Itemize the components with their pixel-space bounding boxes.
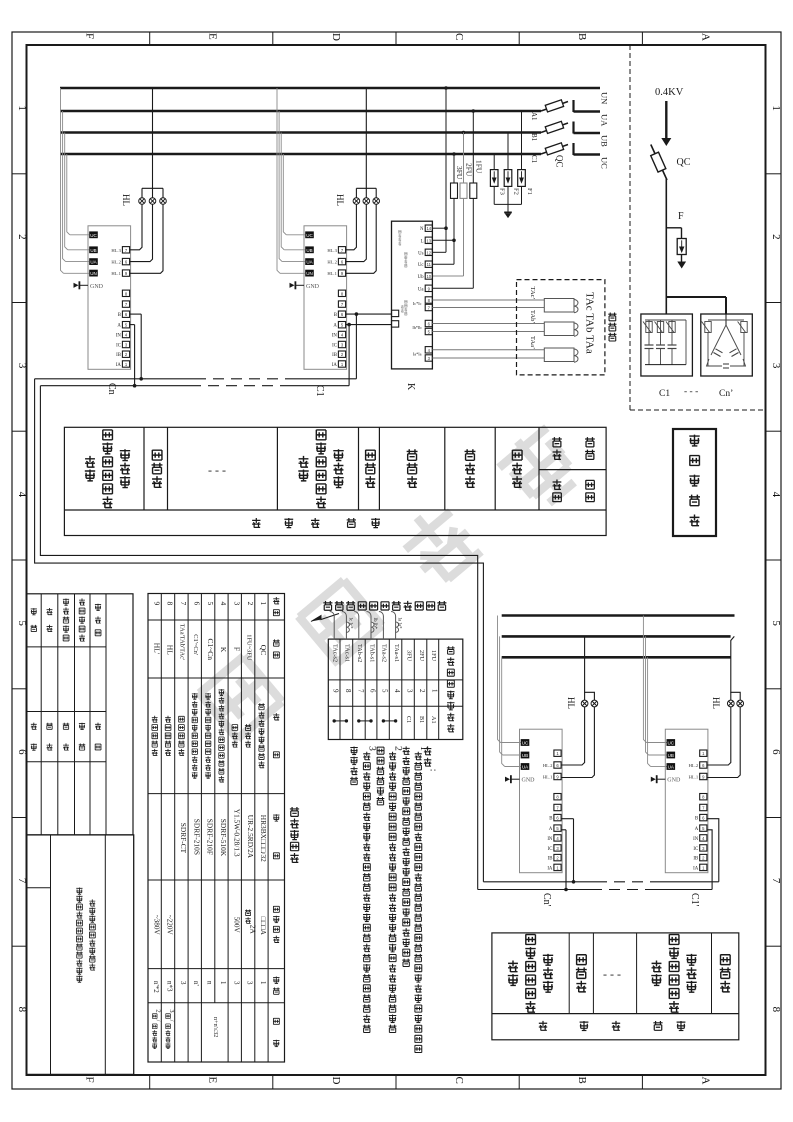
CT coil stubs above terminals	[330, 612, 402, 640]
svg-text:8: 8	[770, 1007, 782, 1013]
svg-text:K: K	[219, 647, 228, 653]
svg-text:N: N	[420, 227, 424, 232]
fuse 2FU	[432, 131, 473, 276]
svg-text:0.4KV: 0.4KV	[655, 87, 684, 98]
module C1&apos; bus taps	[643, 616, 666, 767]
svg-text:UN: UN	[600, 92, 610, 104]
svg-text:Cn: Cn	[106, 383, 117, 395]
title block	[27, 835, 134, 1075]
svg-text:HL.1: HL.1	[689, 775, 699, 780]
svg-text:9: 9	[152, 602, 161, 606]
svg-text:IB: IB	[116, 353, 121, 358]
svg-text:4: 4	[770, 492, 782, 498]
label C1	[314, 385, 325, 397]
svg-text:GND: GND	[90, 284, 104, 290]
svg-text:UB: UB	[306, 248, 312, 253]
comm wire B (RS485)	[35, 312, 484, 882]
svg-text:UC: UC	[522, 741, 529, 746]
CT secondary wires	[432, 300, 544, 358]
svg-text:- - -: - - -	[684, 387, 698, 397]
svg-text:n*3: n*3	[166, 981, 174, 992]
svg-text:L: L	[421, 239, 424, 244]
svg-text:HL.1: HL.1	[327, 271, 337, 276]
comm wire B (lower)	[483, 819, 718, 884]
module C1&apos;	[651, 729, 708, 873]
svg-text:HL: HL	[335, 194, 345, 206]
svg-text:Ub: Ub	[418, 275, 424, 280]
svg-text:C1: C1	[314, 385, 325, 397]
knife switch QC (incoming, 3 poles)	[530, 100, 600, 168]
svg-text:3: 3	[406, 689, 414, 693]
labels UN UA UB UC	[600, 92, 610, 169]
svg-text:B1: B1	[418, 716, 425, 723]
bus B (lower diagram)	[502, 635, 731, 638]
svg-text:TAc-s2: TAc-s2	[331, 644, 338, 662]
svg-text:1FU: 1FU	[430, 650, 437, 662]
svg-text:SDRF-210S: SDRF-210S	[192, 819, 201, 855]
watermark	[198, 421, 585, 740]
svg-text:4: 4	[393, 689, 401, 693]
module C1	[290, 226, 347, 369]
svg-text:1: 1	[430, 689, 438, 693]
svg-text:C1'~Cn': C1'~Cn'	[192, 634, 199, 655]
svg-text:IC: IC	[693, 847, 698, 852]
svg-text:UC: UC	[668, 741, 675, 746]
svg-text:HL: HL	[711, 697, 721, 709]
svg-text:A: A	[333, 324, 337, 329]
svg-text:UB: UB	[600, 135, 610, 147]
label Cn&apos;	[541, 893, 552, 907]
svg-text:5: 5	[770, 620, 782, 626]
legend table (top diagram)	[64, 427, 606, 535]
svg-text:1FU~3FU: 1FU~3FU	[245, 634, 252, 661]
svg-text:TAb’: TAb’	[529, 310, 536, 324]
svg-text:A: A	[699, 1077, 711, 1085]
bus N	[60, 87, 600, 90]
svg-text:B: B	[695, 817, 698, 822]
svg-text:10: 10	[426, 274, 431, 279]
module Cn bus taps	[61, 88, 90, 273]
svg-text:2: 2	[393, 746, 404, 751]
svg-text:IB: IB	[332, 353, 337, 358]
svg-text:Ic*Ic: Ic*Ic	[413, 301, 422, 306]
svg-text:11: 11	[427, 262, 432, 267]
svg-text:3: 3	[168, 1009, 175, 1012]
svg-text:3: 3	[179, 981, 187, 985]
module C1 bus taps	[277, 88, 305, 273]
bus C	[60, 153, 541, 156]
surge arrester F (primary)	[666, 211, 686, 269]
svg-text:HR3BX□□□/32: HR3BX□□□/32	[259, 815, 268, 862]
svg-text:A: A	[549, 827, 553, 832]
svg-text:F: F	[84, 1077, 96, 1083]
svg-text:2: 2	[155, 1009, 162, 1012]
svg-text:UC: UC	[306, 233, 313, 238]
main vertical wire	[665, 179, 667, 314]
svg-text:HL.1: HL.1	[543, 775, 553, 780]
fuse 1FU	[432, 109, 483, 288]
svg-text:2: 2	[770, 234, 782, 240]
svg-text:n+n'≤32: n+n'≤32	[212, 1017, 219, 1037]
svg-text:HL: HL	[166, 645, 175, 655]
svg-text:TAa’: TAa’	[529, 336, 536, 349]
capacitor box C1 (star)	[641, 314, 693, 376]
signature table	[27, 594, 134, 835]
svg-text:SDRF-510K: SDRF-510K	[219, 819, 228, 857]
svg-text:HL.1: HL.1	[111, 271, 121, 276]
svg-text:TAc-s1: TAc-s1	[344, 644, 351, 662]
svg-text:1: 1	[259, 981, 267, 985]
svg-text:C: C	[453, 1077, 465, 1084]
svg-text:UA: UA	[522, 765, 528, 770]
svg-text:IA: IA	[116, 363, 122, 368]
svg-text:Ib Ib*: Ib Ib*	[372, 618, 377, 630]
svg-text:HL.3: HL.3	[327, 248, 337, 253]
incoming feeder wire	[661, 101, 671, 146]
svg-text:UN: UN	[306, 271, 313, 276]
svg-text:GND: GND	[522, 778, 536, 784]
svg-text:HL: HL	[566, 697, 576, 709]
svg-text:HL.2: HL.2	[689, 763, 699, 768]
svg-text:1: 1	[16, 105, 28, 111]
svg-text:GND: GND	[306, 284, 320, 290]
svg-text:9: 9	[332, 689, 340, 693]
svg-text:7: 7	[179, 602, 188, 606]
svg-text:Ua: Ua	[418, 287, 424, 292]
svg-text:HL: HL	[121, 194, 131, 206]
svg-text:UA: UA	[600, 114, 610, 127]
lamps HL (module C1&apos;)	[707, 636, 743, 777]
dashed box incoming cabinet	[517, 280, 605, 375]
svg-text:HL': HL'	[152, 643, 161, 655]
svg-text:3: 3	[233, 602, 242, 606]
label C1&apos;	[689, 893, 700, 907]
svg-text:8: 8	[344, 689, 352, 693]
bus B	[60, 131, 541, 134]
svg-text:IC: IC	[332, 344, 337, 349]
comm wire A (RS485)	[40, 323, 477, 890]
svg-text:HL.2: HL.2	[327, 260, 337, 265]
svg-text:6: 6	[770, 749, 782, 755]
svg-text:B: B	[576, 1077, 588, 1084]
svg-text:C1: C1	[659, 389, 670, 399]
svg-text:7: 7	[770, 878, 782, 884]
bus A	[60, 110, 541, 113]
CT TAc TAb TAa coils	[529, 287, 578, 363]
svg-text:C1~Cn: C1~Cn	[206, 639, 215, 661]
svg-text:IN: IN	[693, 837, 699, 842]
capacitor bank branch wires	[666, 297, 726, 314]
svg-text:IA: IA	[332, 363, 338, 368]
svg-text:IC: IC	[548, 847, 553, 852]
svg-text:B: B	[334, 313, 337, 318]
svg-text:n'*2: n'*2	[152, 981, 160, 993]
svg-text:Y1.5W-0.28/1.3: Y1.5W-0.28/1.3	[232, 809, 241, 857]
svg-text:Ib*Ib: Ib*Ib	[412, 325, 421, 330]
svg-text:3FU: 3FU	[455, 166, 464, 180]
svg-text:TAc TAb TAa: TAc TAb TAa	[584, 292, 596, 354]
svg-text:TAb-s2: TAb-s2	[356, 644, 363, 662]
svg-text:IB: IB	[548, 857, 553, 862]
surge arresters F1 F2 F3	[490, 111, 532, 218]
svg-text:6: 6	[369, 689, 377, 693]
label incoming CT secondary	[311, 601, 446, 622]
svg-text:3: 3	[16, 363, 28, 369]
svg-text:2FU: 2FU	[418, 650, 425, 662]
fuse 3FU	[432, 152, 464, 264]
svg-text:HL.2: HL.2	[111, 260, 121, 265]
svg-text:Cn’: Cn’	[719, 389, 733, 399]
svg-text:n': n'	[192, 981, 200, 986]
knife switch QC (primary)	[651, 145, 691, 181]
svg-text:C1: C1	[405, 716, 412, 723]
svg-text:Ia*Ia: Ia*Ia	[413, 352, 422, 357]
svg-text:8: 8	[166, 602, 175, 606]
svg-text:UA: UA	[306, 260, 312, 265]
svg-text:UB: UB	[90, 248, 96, 253]
svg-text:B: B	[549, 817, 552, 822]
svg-text:~380V: ~380V	[152, 915, 160, 936]
svg-text:F2: F2	[512, 188, 519, 195]
svg-text:QC: QC	[677, 157, 691, 168]
svg-text:Us: Us	[418, 251, 423, 256]
svg-text:3: 3	[246, 981, 254, 985]
lamps HL (module C1)	[335, 88, 379, 273]
label 进线柜	[608, 312, 616, 341]
svg-text:- - -: - - -	[208, 463, 226, 477]
svg-text:- - -: - - -	[603, 967, 621, 981]
svg-text:TAb-s1: TAb-s1	[368, 644, 375, 662]
svg-text:6: 6	[192, 602, 201, 606]
wire N to controller	[432, 86, 447, 252]
svg-text:A: A	[695, 827, 699, 832]
svg-text:□□□A: □□□A	[259, 917, 267, 936]
svg-text:HL.2: HL.2	[543, 763, 553, 768]
svg-text:TAa-s1: TAa-s1	[393, 644, 400, 662]
comm wires C1 to K	[346, 314, 392, 325]
svg-text:A: A	[699, 33, 711, 41]
svg-text:C: C	[453, 33, 465, 40]
svg-text:TAc’: TAc’	[529, 287, 536, 300]
svg-text:IA: IA	[547, 866, 553, 871]
svg-text:F1: F1	[526, 188, 533, 195]
svg-text:2: 2	[16, 234, 28, 240]
svg-text:D: D	[330, 33, 342, 41]
svg-text:QC: QC	[259, 645, 268, 655]
svg-text:3: 3	[367, 746, 378, 751]
svg-text:IN: IN	[116, 334, 122, 339]
svg-text:B: B	[118, 313, 121, 318]
notes text	[350, 746, 439, 1053]
controller K	[392, 221, 433, 391]
svg-text:A1: A1	[430, 716, 437, 724]
svg-text:E: E	[207, 1077, 219, 1084]
svg-text:QC: QC	[555, 155, 565, 168]
svg-text:K: K	[405, 383, 416, 391]
svg-text:UR-2.5RD/2A: UR-2.5RD/2A	[246, 815, 255, 859]
svg-text:/: /	[155, 1020, 162, 1022]
svg-text:2A: 2A	[248, 925, 257, 935]
svg-text:B1: B1	[530, 133, 538, 142]
svg-text:1FU: 1FU	[475, 160, 484, 174]
svg-text:UB: UB	[522, 753, 528, 758]
svg-text:500V: 500V	[232, 917, 240, 934]
svg-text:1: 1	[418, 746, 429, 751]
svg-text:A: A	[117, 324, 121, 329]
terminal block table	[328, 639, 463, 739]
bus C (lower diagram)	[502, 656, 731, 659]
svg-text:12: 12	[426, 250, 431, 255]
svg-text:SDRF-210F: SDRF-210F	[206, 819, 215, 855]
svg-text:F: F	[84, 33, 96, 39]
svg-text:/: /	[168, 1020, 175, 1022]
svg-text:UB: UB	[668, 753, 674, 758]
svg-text:1: 1	[770, 105, 782, 111]
label 0.4KV	[655, 87, 684, 98]
lamps HL (module Cn)	[121, 88, 166, 273]
svg-text:7: 7	[357, 689, 365, 693]
svg-text:Ia Ia*: Ia Ia*	[397, 618, 402, 630]
svg-text:F3: F3	[499, 188, 506, 195]
svg-text:UA: UA	[90, 260, 96, 265]
svg-text:F: F	[233, 647, 242, 651]
svg-text:UA: UA	[668, 765, 674, 770]
svg-text:n: n	[206, 981, 214, 985]
svg-text::: :	[428, 769, 439, 772]
svg-text:2: 2	[418, 689, 426, 693]
svg-text:IN: IN	[547, 837, 553, 842]
capacitor box Cn (delta)	[701, 314, 753, 376]
svg-text:C1: C1	[530, 155, 538, 164]
svg-text:14: 14	[426, 226, 431, 231]
primary diagram separator dashed	[630, 45, 766, 410]
svg-text:E: E	[207, 33, 219, 40]
svg-text:~220V: ~220V	[166, 915, 174, 936]
comm wire A (lower)	[478, 830, 712, 892]
svg-text:F: F	[678, 211, 684, 222]
lamps HL (module Cn&apos;)	[562, 636, 598, 777]
svg-text:13: 13	[426, 238, 431, 243]
svg-text:4: 4	[219, 602, 228, 606]
labels C1 ... Cn	[659, 387, 733, 399]
svg-text:2FU: 2FU	[465, 163, 474, 177]
svg-text:IN: IN	[332, 334, 338, 339]
svg-text:A1: A1	[530, 112, 538, 121]
module Cn&apos; bus taps	[498, 616, 521, 767]
label Cn	[106, 383, 117, 395]
svg-text:B: B	[576, 33, 588, 40]
svg-text:3: 3	[770, 363, 782, 369]
svg-text:3: 3	[232, 981, 240, 985]
equipment table	[148, 594, 285, 1063]
svg-text:Cn': Cn'	[541, 893, 552, 907]
svg-text:UN: UN	[90, 271, 97, 276]
svg-text:IA: IA	[693, 866, 699, 871]
svg-text:Uc: Uc	[418, 263, 424, 268]
svg-text:UC: UC	[600, 157, 610, 169]
svg-text:C1': C1'	[689, 893, 700, 907]
title box 一次接线图	[673, 429, 716, 536]
label TAc TAb TAa	[584, 292, 596, 354]
svg-text:2: 2	[246, 602, 255, 606]
svg-text:TAa'TAb'TAc': TAa'TAb'TAc'	[179, 624, 186, 660]
svg-text:5: 5	[206, 602, 215, 606]
legend table (lower diagram)	[492, 933, 739, 1040]
svg-text:IC: IC	[116, 344, 121, 349]
svg-text:IB: IB	[693, 857, 698, 862]
svg-text:1: 1	[259, 602, 268, 606]
equipment table title	[290, 807, 299, 863]
module Cn	[74, 226, 131, 369]
svg-text:1: 1	[219, 981, 227, 985]
svg-text:4: 4	[16, 492, 28, 498]
module Cn&apos;	[505, 729, 562, 873]
svg-text:D: D	[330, 1077, 342, 1085]
svg-text:UC: UC	[90, 233, 97, 238]
bus A (lower diagram)	[502, 614, 735, 617]
svg-text:5: 5	[381, 689, 389, 693]
svg-text:3FU: 3FU	[405, 650, 412, 662]
svg-text:Ic Ic*: Ic Ic*	[348, 618, 353, 630]
svg-text:SDRF-CT: SDRF-CT	[179, 823, 188, 854]
svg-text:HL.3: HL.3	[111, 248, 121, 253]
svg-text:TAa-s2: TAa-s2	[380, 644, 387, 662]
svg-text:GND: GND	[667, 778, 681, 784]
